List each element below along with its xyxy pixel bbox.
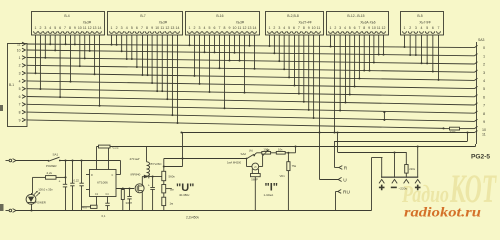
wire grid row 7 [27, 97, 475, 106]
svg-text:8: 8 [19, 111, 21, 115]
wire grid row 0 [27, 44, 475, 48]
wire drain [141, 177, 143, 187]
svg-text:13: 13 [93, 26, 97, 30]
svg-text:5: 5 [19, 87, 21, 91]
svg-text:11: 11 [238, 26, 242, 30]
wire XP5 pin2 drop to row 11 [334, 35, 336, 133]
svg-text:7: 7 [64, 26, 66, 30]
svg-text:7: 7 [19, 103, 21, 107]
svg-text:11: 11 [160, 26, 164, 30]
svg-text:В-5: В-5 [417, 14, 422, 18]
svg-text:6: 6 [354, 26, 356, 30]
svg-text:2: 2 [409, 26, 411, 30]
svg-text:4: 4 [204, 26, 206, 30]
LED POWER [32, 177, 34, 193]
wire hook to row11 [467, 133, 469, 142]
svg-text:9: 9 [229, 26, 231, 30]
svg-text:BYV26C: BYV26C [151, 162, 162, 166]
junction dots of pin drops [35, 43, 440, 124]
wire supply rail [97, 146, 476, 148]
svg-text:5: 5 [288, 26, 290, 30]
svg-text:470: 470 [82, 206, 87, 210]
svg-text:330П: 330П [126, 201, 133, 205]
wire grid row 6 [27, 89, 475, 97]
capacitor C6 0.1 at IC bottom [107, 197, 109, 204]
svg-text:4: 4 [283, 26, 285, 30]
svg-text:ХЬ3А-ХЬ6: ХЬ3А-ХЬ6 [360, 21, 375, 25]
wire SA2 to PA1 [246, 159, 248, 167]
svg-text:75в: 75в [292, 164, 297, 168]
svg-text:3: 3 [483, 71, 485, 75]
battery terminal minus [394, 152, 396, 177]
diode VD2 BYV26C [142, 176, 144, 178]
svg-text:1м: 1м [170, 201, 174, 205]
svg-text:7: 7 [438, 26, 440, 30]
wire minus feed [337, 133, 339, 153]
wire bus y141 [335, 141, 468, 143]
terminal U [338, 177, 341, 181]
connector XP2 box В-7 [108, 12, 183, 36]
svg-text:8: 8 [69, 26, 71, 30]
capacitor C2 [72, 161, 74, 184]
svg-text:6: 6 [19, 95, 21, 99]
terminal 220v [405, 152, 407, 165]
svg-text:1: 1 [269, 26, 271, 30]
svg-text:100к: 100к [263, 147, 270, 151]
connector XP6 box В-5 [401, 12, 444, 36]
transistor VT1 IRF840 [135, 184, 144, 193]
svg-text:8: 8 [224, 26, 226, 30]
input terminal X2 [6, 210, 9, 212]
wires connector pin drops [36, 35, 439, 123]
svg-text:7: 7 [141, 26, 143, 30]
svg-text:13: 13 [248, 26, 252, 30]
svg-text:2,2х450v: 2,2х450v [186, 216, 199, 220]
input terminal X1 [6, 160, 9, 162]
svg-text:10: 10 [312, 26, 316, 30]
svg-text:3: 3 [278, 26, 280, 30]
resistor R7 560 shunt [251, 169, 253, 174]
svg-text:10: 10 [372, 26, 376, 30]
inductor L1 470uH [146, 147, 148, 162]
svg-text:5: 5 [54, 26, 56, 30]
scan artifact left edge 2 [0, 204, 4, 211]
wire LED to ground bus [31, 204, 33, 210]
wire source to ground [141, 191, 143, 211]
svg-text:VD1: VD1 [280, 174, 286, 178]
svg-text:В-4: В-4 [64, 14, 69, 18]
timer IC DA1 KR1006VI1 [90, 170, 117, 197]
svg-text:10: 10 [155, 26, 159, 30]
svg-text:5: 5 [131, 26, 133, 30]
svg-text:4: 4 [49, 26, 51, 30]
svg-text:SA3: SA3 [478, 38, 485, 42]
svg-text:560Р: 560Р [251, 177, 258, 181]
watermark Radio KOT logo [401, 166, 497, 211]
svg-text:12: 12 [243, 26, 247, 30]
rotary switch SA3 common [476, 42, 478, 144]
connector XP3 pin sockets [188, 31, 257, 33]
svg-text:9: 9 [151, 26, 153, 30]
connector XP4 box В-2,В-8 [266, 12, 324, 36]
svg-text:1: 1 [483, 54, 485, 58]
svg-text:8: 8 [303, 26, 305, 30]
svg-text:11: 11 [83, 26, 87, 30]
svg-text:6: 6 [293, 26, 295, 30]
svg-text:ХЬ3Ф: ХЬ3Ф [159, 21, 168, 25]
svg-text:11: 11 [17, 42, 21, 46]
svg-text:9: 9 [308, 26, 310, 30]
svg-text:5: 5 [349, 26, 351, 30]
svg-text:ХЬ3Ф: ХЬ3Ф [236, 21, 245, 25]
svg-text:1: 1 [189, 26, 191, 30]
svg-text:КОТ: КОТ [449, 166, 497, 211]
wire HV bus row 11 [182, 132, 475, 134]
svg-text:6: 6 [136, 26, 138, 30]
battery terminal plus 1 [381, 158, 383, 178]
wire U to riser [320, 179, 339, 181]
svg-text:8: 8 [146, 26, 148, 30]
connector XP2 pin sockets [110, 31, 180, 33]
svg-text:2: 2 [39, 26, 41, 30]
svg-text:В-7: В-7 [140, 14, 145, 18]
svg-text:7: 7 [358, 26, 360, 30]
svg-text:7: 7 [219, 26, 221, 30]
resistor R3 470 at IC bottom [96, 197, 98, 207]
switch SA1 [49, 157, 60, 161]
svg-text:radiokot.ru: radiokot.ru [404, 206, 481, 221]
wire to rail riser [285, 152, 295, 154]
svg-text:С: С [112, 174, 114, 177]
svg-text:2,2к: 2,2к [47, 171, 53, 175]
svg-text:470 мкГ: 470 мкГ [130, 157, 141, 161]
connector XP3 box В-16 [186, 12, 260, 36]
svg-text:0: 0 [483, 46, 485, 50]
svg-text:2: 2 [273, 26, 275, 30]
svg-text:"I": "I" [265, 182, 279, 194]
svg-text:6: 6 [214, 26, 216, 30]
svg-text:(А): (А) [249, 148, 253, 152]
resistor R2 0.22 on rail [99, 145, 111, 148]
svg-text:В-16: В-16 [216, 14, 223, 18]
capacitor C4 330p at gate [128, 187, 130, 189]
resistor R6 1M [163, 193, 165, 197]
svg-text:PG2-5: PG2-5 [471, 154, 490, 161]
svg-text:12: 12 [382, 26, 386, 30]
svg-text:1: 1 [111, 26, 113, 30]
svg-text:10: 10 [233, 26, 237, 30]
wire link row9 to row10 [383, 112, 385, 120]
svg-text:3: 3 [19, 72, 21, 76]
wire SA1 to supply node [60, 160, 121, 162]
svg-text:4: 4 [126, 26, 128, 30]
svg-text:3: 3 [415, 26, 417, 30]
battery terminal plus 2 [417, 147, 419, 178]
svg-text:3: 3 [121, 26, 123, 30]
wire R to bus141 [335, 167, 339, 169]
svg-text:560к: 560к [169, 175, 176, 179]
wire from X1 to SA1 [16, 160, 49, 162]
wire IC top pins to rail [96, 147, 98, 170]
svg-text:3: 3 [44, 26, 46, 30]
svg-text:5: 5 [209, 26, 211, 30]
svg-text:0,1: 0,1 [102, 214, 106, 218]
connector XP1 box В-4 [32, 12, 105, 36]
wire IC pin to SA1 rail [120, 161, 122, 175]
switch SA3 position labels 0-11 [482, 46, 486, 136]
wire ground bus riser to battery plus [371, 158, 373, 211]
connector XP5 box В-12...В-15 [327, 12, 389, 36]
svg-text:1: 1 [404, 26, 406, 30]
svg-text:9: 9 [483, 120, 485, 124]
svg-text:+: + [59, 179, 61, 183]
svg-text:5м: 5м [170, 187, 174, 191]
resistor R5 5M [163, 181, 165, 185]
connector XP0 pins and labels [17, 42, 26, 122]
svg-text:9: 9 [19, 118, 21, 122]
svg-text:1мА М4200: 1мА М4200 [227, 161, 242, 165]
wire U to SA2 [164, 158, 247, 160]
svg-text:220к: 220к [409, 167, 415, 171]
capacitor C5 2.2uF 450v [152, 177, 154, 188]
svg-text:R: R [91, 174, 93, 177]
connector XP6 pin sockets [403, 31, 441, 33]
resistor R11 at IC output [122, 187, 124, 189]
svg-text:КТ1006: КТ1006 [97, 181, 108, 185]
svg-text:1-10мА: 1-10мА [264, 193, 274, 197]
resistor R-470k on switch position 10 feed [443, 127, 445, 129]
svg-text:ХЬ7-9Ф: ХЬ7-9Ф [419, 21, 431, 25]
resistor R10 220k [405, 165, 408, 174]
svg-text:4: 4 [421, 26, 423, 30]
svg-text:3: 3 [199, 26, 201, 30]
svg-text:6: 6 [59, 26, 61, 30]
svg-text:8: 8 [363, 26, 365, 30]
svg-text:ХЬ3Ф: ХЬ3Ф [83, 21, 92, 25]
resistor R9 10k [276, 152, 285, 155]
svg-text:11: 11 [317, 26, 321, 30]
wire grid row 10 [27, 120, 444, 128]
svg-text:2: 2 [334, 26, 336, 30]
svg-text:14: 14 [98, 26, 102, 30]
connector XP4 pin sockets [268, 31, 321, 33]
svg-text:9: 9 [74, 26, 76, 30]
scan artifact left edge 1 [0, 105, 3, 111]
svg-text:100,0 х 35v: 100,0 х 35v [38, 188, 53, 192]
svg-text:40-380v: 40-380v [179, 193, 190, 197]
terminal RU [338, 190, 341, 194]
svg-text:ХЬ27-4Ф: ХЬ27-4Ф [298, 21, 312, 25]
svg-text:U: U [343, 177, 347, 183]
svg-text:7: 7 [483, 104, 485, 108]
connector XP1 pin sockets [34, 31, 102, 33]
capacitor C1 100uF 35v [65, 161, 67, 185]
svg-text:6: 6 [483, 95, 485, 99]
svg-text:В-2,В-8: В-2,В-8 [287, 14, 299, 18]
connector XP0 box В-1 [8, 44, 28, 127]
svg-text:4: 4 [19, 79, 21, 83]
svg-text:В-1: В-1 [9, 83, 14, 87]
svg-text:1: 1 [19, 56, 21, 60]
wire HV node jumper [164, 166, 183, 168]
wire grid row 3 [27, 65, 475, 72]
svg-text:POWER: POWER [35, 201, 46, 205]
svg-text:IRF840: IRF840 [131, 173, 141, 177]
potentiometer R8 100k [263, 152, 277, 154]
wire grid row 4 [27, 73, 475, 80]
svg-text:7: 7 [298, 26, 300, 30]
svg-text:1: 1 [35, 26, 37, 30]
svg-text:9: 9 [368, 26, 370, 30]
capacitor C3 0.22 [81, 161, 83, 184]
svg-text:10к: 10к [278, 147, 283, 151]
wire grid row 5 [27, 81, 475, 89]
svg-text:0,22: 0,22 [74, 179, 80, 183]
microammeter PA1 [252, 163, 259, 170]
zener VD1 [287, 152, 289, 154]
svg-text:8: 8 [483, 112, 485, 116]
svg-text:10: 10 [17, 48, 21, 52]
svg-text:В-12...В-15: В-12...В-15 [347, 14, 364, 18]
resistor R1 2.2k [33, 176, 46, 178]
svg-text:12: 12 [88, 26, 92, 30]
wire grid row 1 [27, 50, 475, 56]
wire shunt to ground [254, 177, 256, 211]
svg-text:14: 14 [176, 26, 180, 30]
wire grid row 9 [27, 112, 475, 121]
svg-text:3: 3 [339, 26, 341, 30]
svg-text:5: 5 [483, 87, 485, 91]
svg-text:SA1: SA1 [53, 152, 59, 156]
terminal R [339, 166, 342, 170]
svg-text:R: R [344, 166, 348, 172]
svg-text:11: 11 [377, 26, 381, 30]
svg-text:10: 10 [78, 26, 82, 30]
svg-text:4: 4 [483, 79, 485, 83]
svg-text:2: 2 [19, 64, 21, 68]
svg-text:2: 2 [194, 26, 196, 30]
wire PA1 right [259, 166, 263, 168]
svg-text:+: + [148, 184, 150, 188]
wire HV riser to row11 [182, 133, 184, 167]
wire U-select riser from XP4 pin 11 [319, 35, 321, 180]
battery holder strip [381, 176, 418, 178]
svg-text:1: 1 [330, 26, 332, 30]
ground bus [16, 210, 372, 212]
resistor chain R4 560k [163, 159, 165, 172]
connector XP5 pin sockets [329, 31, 386, 33]
svg-text:10: 10 [482, 128, 486, 132]
svg-text:6: 6 [432, 26, 434, 30]
svg-text:~220v: ~220v [399, 186, 408, 190]
wire divider tap stub [166, 188, 172, 190]
svg-text:12: 12 [165, 26, 169, 30]
switch SA2 [247, 154, 254, 159]
svg-text:14: 14 [253, 26, 257, 30]
svg-text:11: 11 [482, 132, 486, 136]
svg-text:RU: RU [343, 190, 350, 196]
wire grid row 2 [27, 58, 475, 65]
svg-text:0,22: 0,22 [113, 145, 119, 149]
wire RU to ground bus [336, 191, 338, 193]
svg-text:2: 2 [483, 63, 485, 67]
svg-text:SA2: SA2 [241, 152, 247, 156]
svg-text:2: 2 [116, 26, 118, 30]
svg-text:Радио: Радио [401, 182, 449, 208]
svg-text:POWER: POWER [46, 164, 57, 168]
svg-text:13: 13 [170, 26, 174, 30]
svg-text:5: 5 [426, 26, 428, 30]
svg-text:4: 4 [344, 26, 346, 30]
wire grid row 8 [27, 104, 475, 113]
